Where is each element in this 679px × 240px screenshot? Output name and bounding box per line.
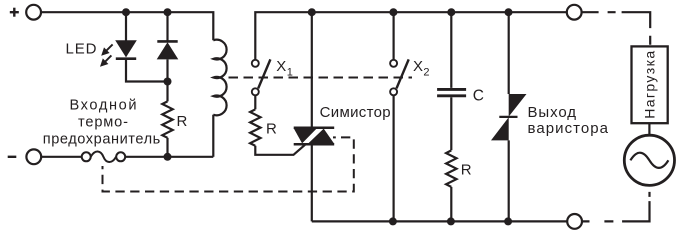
terminal: top-right (open circle) — [567, 5, 582, 20]
wire: load box to AC source — [648, 123, 650, 135]
wire: top-right bus from X1 corner to right terminal — [255, 12, 567, 59]
node: junction dot diode column / top bus — [164, 8, 172, 16]
contact X2: lower circle — [390, 88, 397, 95]
triac U1: right triangle (pointing up) — [308, 129, 334, 144]
triac U1: top lead — [311, 12, 313, 127]
node: junction dot LED column / top bus — [122, 8, 130, 16]
svg-text:термо-: термо- — [78, 114, 128, 130]
wire: varistor RV1 bottom lead — [508, 140, 510, 221]
thermal fuse F1: right contact circle — [116, 152, 125, 161]
contact X1: blade — [258, 59, 270, 88]
AC source G1: sine wave — [630, 153, 668, 168]
wire: diode D2 bottom lead to node A and to resistor R1 — [166, 59, 168, 101]
svg-text:C: C — [473, 88, 484, 105]
node: junction dot C column / top bus — [447, 8, 455, 16]
wire: fuse to coil corner on lower-left bus — [125, 156, 213, 158]
resistor R3 (zigzag) — [446, 150, 456, 187]
node: junction dot X2 column / top bus — [389, 8, 397, 16]
capacitor C: top plate — [437, 88, 466, 91]
wire: R3 bottom lead — [450, 187, 452, 222]
LED D1 (triangle pointing down) — [115, 40, 137, 57]
load box (Nagruzka) — [632, 46, 668, 123]
wire: top-left bus from + terminal to coil corner, and coil leads — [41, 12, 213, 40]
diode D2 (triangle pointing up) — [157, 42, 179, 59]
svg-text:2: 2 — [423, 67, 429, 79]
varistor RV1: middle tick — [499, 116, 517, 118]
node: junction dot R1 / lower-left bus — [164, 153, 172, 161]
diode D2 cathode bar — [157, 40, 177, 43]
varistor RV1: upper triangle — [509, 94, 527, 117]
thermal fuse F1: left contact circle — [82, 152, 91, 161]
svg-text:Входной: Входной — [70, 97, 137, 113]
LED D1 cathode bar — [116, 57, 136, 60]
AC source G1 (circle) — [624, 135, 674, 185]
wire: protection diode top lead — [166, 12, 168, 41]
svg-text:предохранитель: предохранитель — [43, 131, 161, 147]
terminal - (open circle) — [26, 149, 41, 164]
triac U1: bottom bar — [294, 143, 335, 146]
thermal fuse F1: wavy element — [91, 152, 116, 163]
svg-text:1: 1 — [287, 67, 293, 79]
node A: junction dot LED/diode/R1 — [164, 78, 172, 86]
dash-dot wire: AC source to bottom-right terminal — [582, 186, 649, 221]
wire: LED anode lead — [125, 12, 127, 41]
triac U1: left triangle (pointing down) — [294, 128, 317, 143]
svg-text:LED: LED — [66, 41, 97, 58]
svg-text:Симистор: Симистор — [320, 104, 391, 121]
svg-text:R: R — [461, 162, 472, 179]
svg-text:X: X — [276, 58, 286, 75]
contact X1: lower circle — [252, 88, 259, 95]
wire: coil bottom lead down to lower-left bus — [212, 115, 214, 157]
dash-dot wire: top-right terminal to load box — [582, 12, 651, 46]
svg-text:Выход: Выход — [528, 104, 577, 121]
contact X2: blade — [397, 59, 409, 88]
svg-text:R: R — [266, 121, 277, 138]
wire: X2 lower lead to bottom bus — [393, 96, 395, 222]
wire: LED cathode lead down and right to node A — [126, 60, 168, 82]
terminal: bottom-right (open circle) — [567, 214, 582, 229]
resistor R1 (zigzag) — [162, 101, 172, 137]
node: junction dot triac column / top bus — [308, 8, 316, 16]
node: junction dot varistor / bottom bus — [504, 217, 512, 225]
dashed coupling line between coil and contacts X1 X2 — [229, 77, 413, 79]
wire: lower-left bus, - terminal to fuse — [41, 156, 81, 158]
dashed mechanical trip linkage from fuse to triac — [103, 137, 354, 191]
varistor RV1: lower triangle — [491, 117, 509, 140]
minus sign of input terminal — [8, 156, 17, 158]
wire: bottom-right bus from triac to right terminal — [312, 220, 568, 222]
wire: R2 bottom lead and gate wire to triac — [255, 144, 305, 155]
node: junction dot R3 / bottom bus — [447, 217, 455, 225]
contact X1: upper circle — [252, 60, 259, 67]
node: junction dot X2 / bottom bus — [389, 217, 397, 225]
triac U1: bottom lead to lower bus — [311, 144, 313, 221]
svg-text:R: R — [177, 113, 188, 130]
node: junction dot varistor column / top bus — [505, 8, 513, 16]
wire: capacitor C top lead — [450, 12, 452, 88]
triac U1: top bar — [294, 126, 335, 129]
wire: R1 bottom lead — [166, 138, 168, 157]
plus sign of input terminal — [10, 8, 19, 17]
wire: C bottom lead to R3 — [450, 97, 452, 150]
wire: X1 lower lead to R2 — [254, 96, 256, 110]
LED light arrow 1 — [101, 44, 112, 55]
svg-text:варистора: варистора — [528, 120, 609, 137]
LED light arrow 2 — [100, 55, 111, 66]
capacitor C: bottom plate — [437, 94, 466, 97]
wire: varistor RV1 top lead — [508, 12, 510, 94]
contact X2: upper circle — [390, 60, 397, 67]
contact X2: top lead — [393, 12, 395, 59]
resistor R2 (zigzag) — [250, 109, 260, 146]
terminal + (open circle) — [26, 5, 41, 20]
svg-text:X: X — [413, 58, 423, 75]
inductor L (relay coil, 4 arcs) — [213, 40, 226, 116]
